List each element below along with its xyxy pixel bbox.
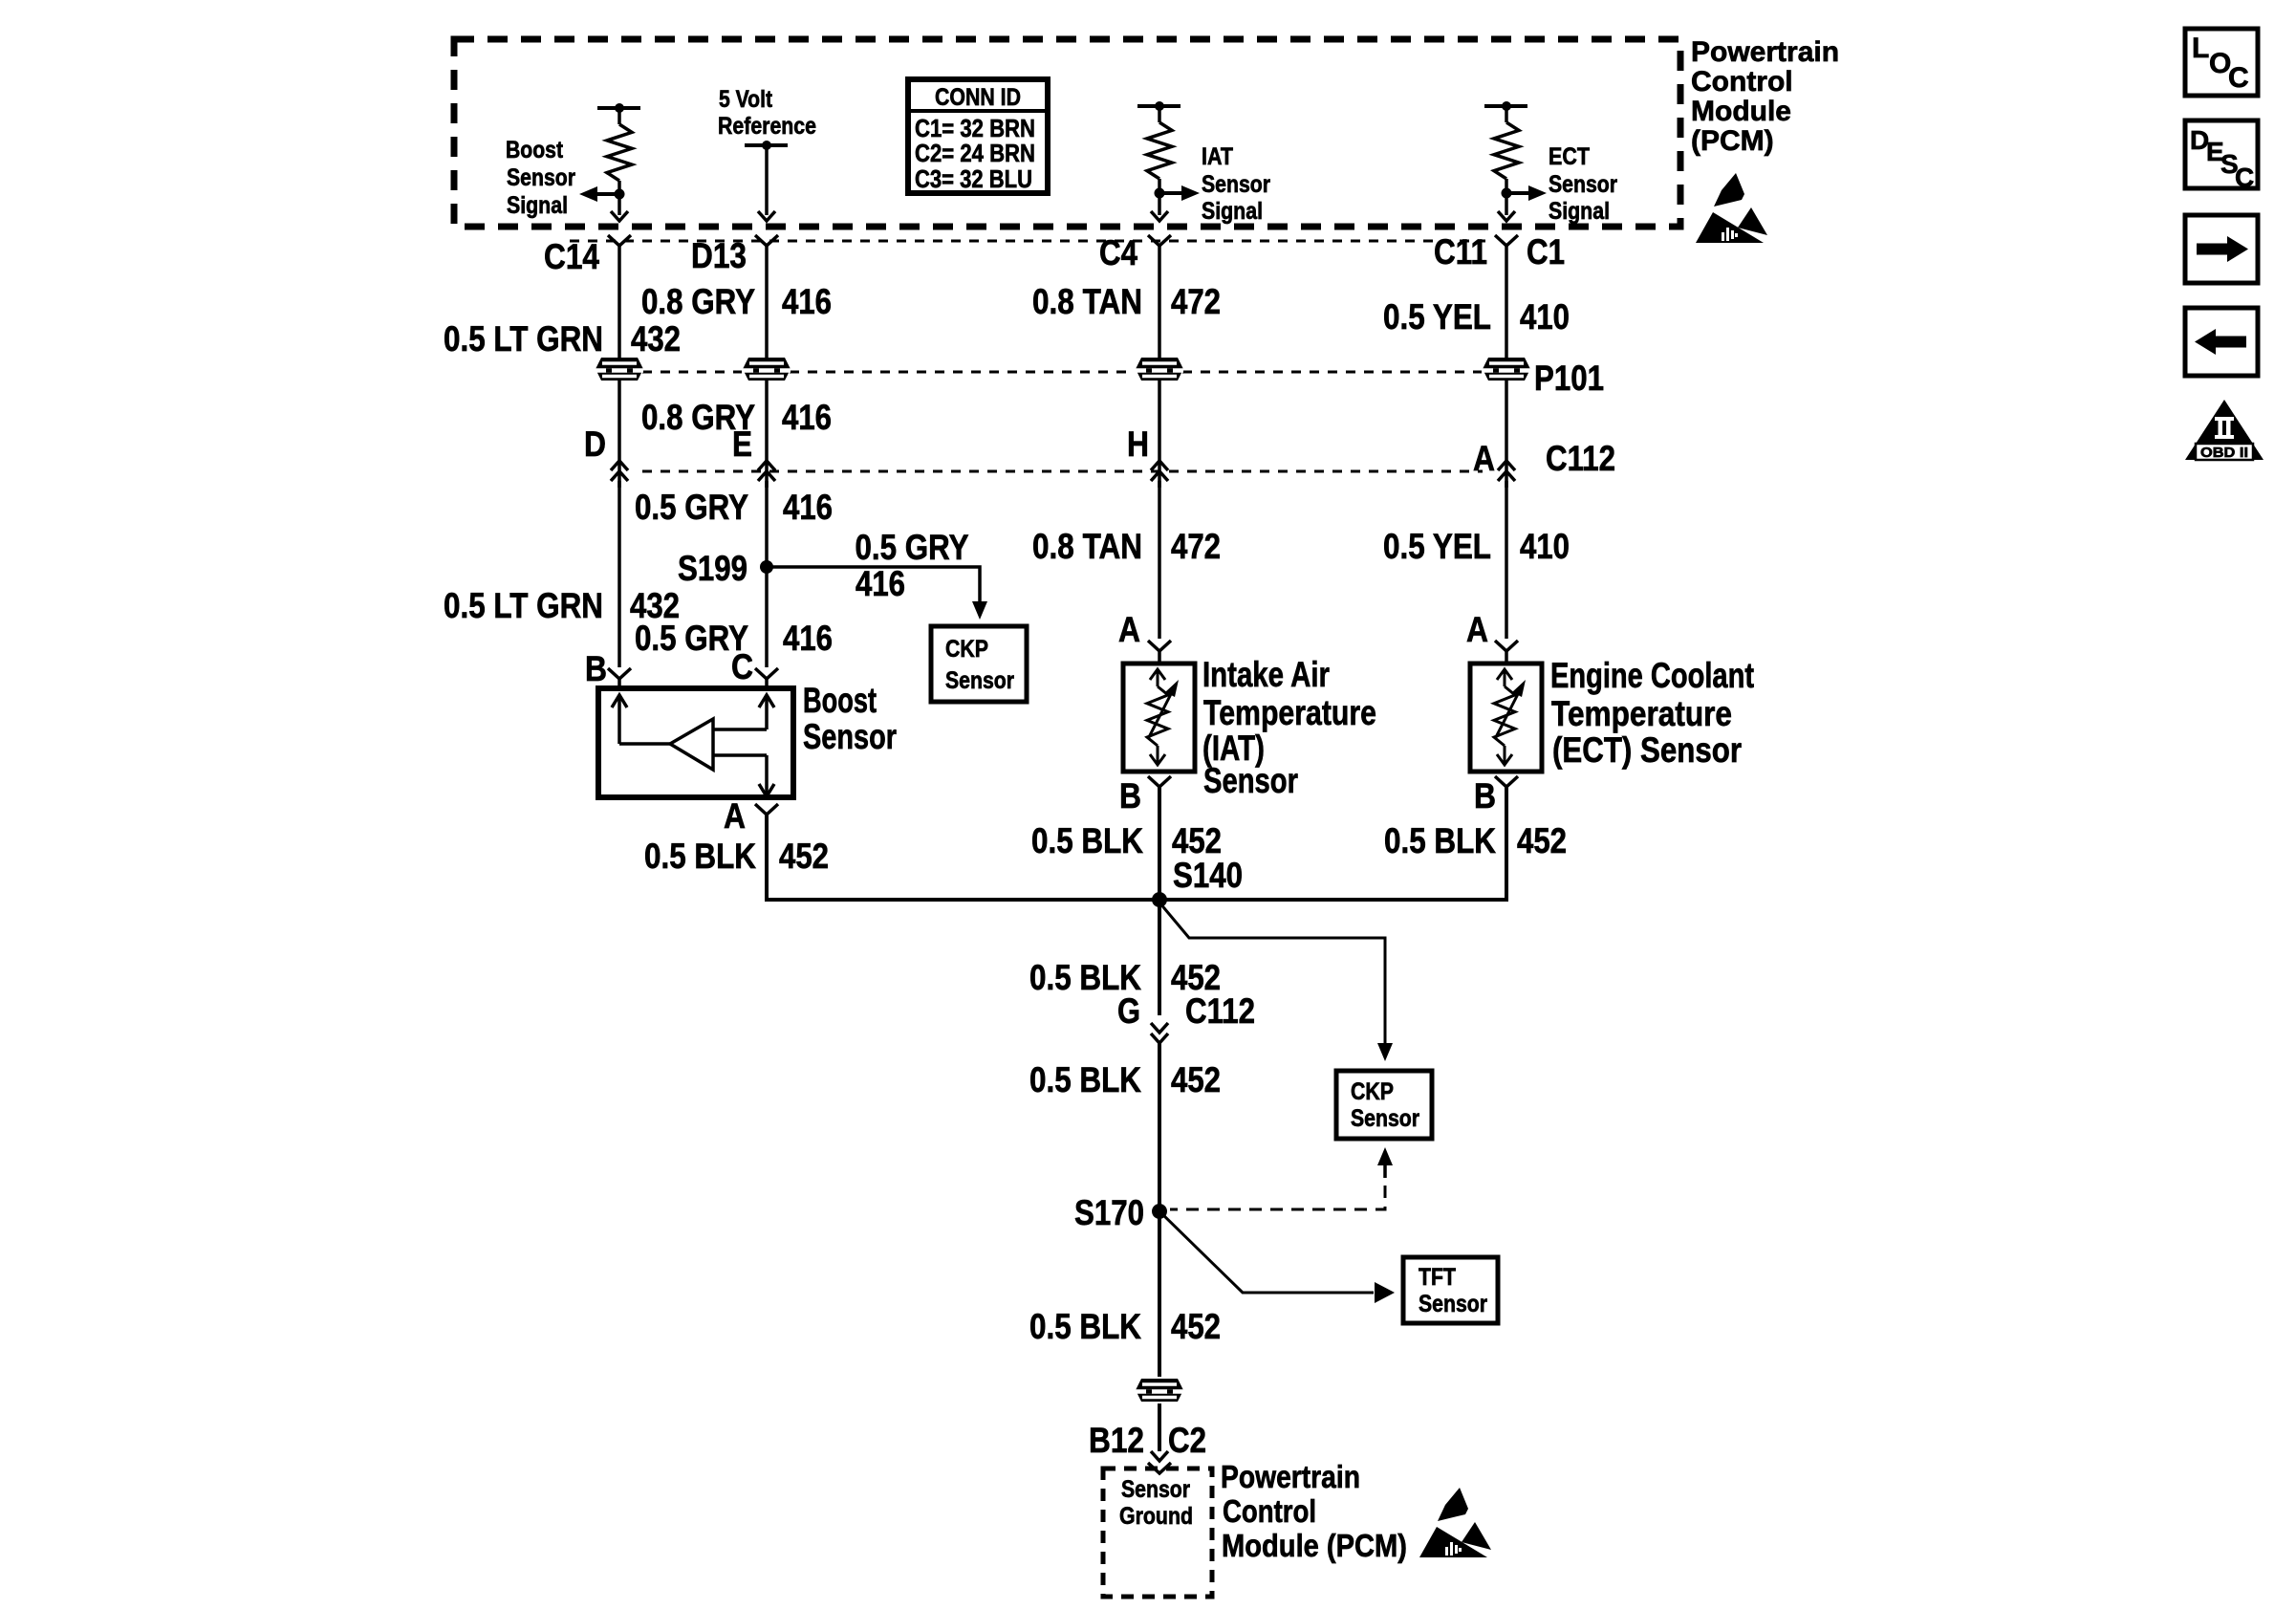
C112 terminal chevrons <box>611 461 628 470</box>
C112 terminal chevrons <box>1151 461 1168 470</box>
svg-text:452: 452 <box>1171 1307 1221 1346</box>
C112 terminal chevrons <box>1498 461 1515 470</box>
wire C11 to P101 <box>1505 246 1508 358</box>
CONN ID table <box>908 79 1048 193</box>
svg-text:(ECT) Sensor: (ECT) Sensor <box>1552 730 1742 770</box>
PCM module box (dashed) <box>454 39 1680 227</box>
svg-text:Sensor: Sensor <box>1549 171 1617 198</box>
grommet P101 wire C11 <box>1483 358 1530 381</box>
connector terminal fork <box>1148 235 1171 246</box>
connector terminal fork <box>755 235 778 246</box>
svg-text:0.5 BLK: 0.5 BLK <box>1031 821 1143 860</box>
svg-text:Powertrain: Powertrain <box>1691 36 1839 68</box>
svg-text:0.5 GRY: 0.5 GRY <box>635 488 748 527</box>
ECT sensor signal arrow (right) <box>1506 191 1529 195</box>
svg-text:C2: C2 <box>1168 1421 1206 1460</box>
svg-text:Boost: Boost <box>803 681 877 720</box>
svg-text:Sensor: Sensor <box>1419 1291 1487 1317</box>
C112 G chevron <box>1151 1033 1168 1043</box>
grommet P101 wire C4 <box>1136 358 1183 381</box>
svg-text:H: H <box>1127 424 1149 464</box>
svg-text:410: 410 <box>1520 297 1570 337</box>
arrowhead to CKP lower <box>1377 1043 1393 1061</box>
svg-text:C11: C11 <box>1434 232 1487 272</box>
svg-text:B: B <box>1119 776 1141 816</box>
boost pin B fork <box>608 668 631 679</box>
C2 fork <box>1148 1463 1171 1473</box>
svg-text:S199: S199 <box>678 549 747 588</box>
arrowhead up to CKP lower <box>1377 1147 1393 1165</box>
svg-text:Signal: Signal <box>1549 198 1610 225</box>
svg-text:E: E <box>732 424 752 464</box>
right arrow icon <box>2185 215 2258 283</box>
svg-text:OBD II: OBD II <box>2200 445 2248 461</box>
grommet P101 wire C14 <box>596 358 643 381</box>
svg-text:L: L <box>2192 33 2209 64</box>
svg-text:5 Volt: 5 Volt <box>719 86 773 113</box>
svg-text:B: B <box>1474 776 1496 816</box>
TFT Sensor box <box>1403 1257 1498 1323</box>
wire to C112 A <box>1505 381 1508 488</box>
svg-text:C2= 24 BRN: C2= 24 BRN <box>915 139 1035 167</box>
svg-text:S170: S170 <box>1074 1193 1144 1232</box>
svg-text:Sensor: Sensor <box>1203 761 1298 800</box>
svg-text:Temperature: Temperature <box>1203 693 1376 732</box>
svg-text:0.5 GRY: 0.5 GRY <box>856 528 969 567</box>
svg-text:Intake Air: Intake Air <box>1202 655 1330 694</box>
wire IAT B to S140 <box>1158 787 1161 900</box>
svg-text:0.5 LT GRN: 0.5 LT GRN <box>444 586 603 625</box>
wire C14 to P101 <box>617 246 621 358</box>
wire C4 to P101 <box>1158 246 1161 358</box>
ECT sensor box <box>1470 664 1542 772</box>
wire boost A to S140 <box>767 815 1159 900</box>
svg-text:416: 416 <box>783 488 833 527</box>
svg-text:Control: Control <box>1223 1493 1316 1529</box>
wire G to S170 <box>1158 1043 1161 1211</box>
svg-text:Sensor: Sensor <box>1351 1105 1419 1132</box>
svg-text:0.8 TAN: 0.8 TAN <box>1032 282 1142 321</box>
svg-text:C112: C112 <box>1185 991 1255 1031</box>
arrowhead to CKP <box>972 601 987 620</box>
svg-text:Ground: Ground <box>1119 1503 1193 1530</box>
node S140 <box>1152 892 1167 907</box>
node S199 <box>760 560 773 574</box>
wire to grommet C2 <box>1158 1043 1161 1377</box>
svg-text:0.5 BLK: 0.5 BLK <box>644 837 756 876</box>
svg-text:A: A <box>724 796 746 836</box>
svg-text:C: C <box>731 647 753 686</box>
svg-text:Reference: Reference <box>718 113 816 140</box>
svg-text:416: 416 <box>782 398 832 437</box>
wire S199 to CKP sensor <box>767 567 980 602</box>
IAT sensor signal arrow (right) <box>1159 191 1182 195</box>
svg-text:Control: Control <box>1691 66 1793 98</box>
wire D13 to P101 <box>765 246 769 358</box>
OBD II icon <box>2185 400 2264 461</box>
C112 connector dashed line <box>642 470 1483 473</box>
IAT pin A fork <box>1148 641 1171 651</box>
wire to C112 H <box>1158 381 1161 488</box>
svg-text:(PCM): (PCM) <box>1691 125 1774 157</box>
svg-text:C112: C112 <box>1546 439 1615 478</box>
svg-text:A: A <box>1466 610 1488 649</box>
IAT thermistor <box>1150 669 1165 680</box>
wire S140 down <box>1158 900 1161 1015</box>
svg-text:S140: S140 <box>1173 856 1243 895</box>
svg-text:0.5 YEL: 0.5 YEL <box>1383 527 1491 566</box>
svg-text:C: C <box>2235 163 2254 192</box>
svg-text:CKP: CKP <box>945 636 988 663</box>
resistor IAT sensor signal (PCM internal) <box>1137 104 1180 108</box>
CKP Sensor box (lower) <box>1336 1071 1432 1139</box>
svg-text:416: 416 <box>783 619 833 658</box>
svg-text:D: D <box>584 424 606 464</box>
ESD symbol bottom <box>1419 1488 1491 1557</box>
svg-text:452: 452 <box>1171 1060 1221 1099</box>
svg-text:452: 452 <box>1172 821 1222 860</box>
resistor ECT sensor signal (PCM internal) <box>1484 104 1527 108</box>
svg-text:Signal: Signal <box>507 192 568 219</box>
svg-text:G: G <box>1117 991 1140 1031</box>
boost pin A fork <box>755 804 778 815</box>
svg-text:CONN ID: CONN ID <box>935 84 1021 111</box>
resistor boost sensor (PCM internal) <box>597 106 640 110</box>
node S170 <box>1152 1204 1167 1219</box>
svg-text:C14: C14 <box>544 237 599 276</box>
svg-text:410: 410 <box>1520 527 1570 566</box>
wire to C112 E <box>765 381 769 488</box>
svg-text:Module: Module <box>1691 96 1791 127</box>
svg-text:Engine Coolant: Engine Coolant <box>1550 656 1754 695</box>
branch S140 to CKP (lower) <box>1159 903 1385 1044</box>
svg-text:D13: D13 <box>691 236 747 275</box>
Boost Sensor box <box>598 688 793 797</box>
IAT pin B fork <box>1148 776 1171 787</box>
P101 connector dashed line <box>642 371 742 374</box>
ECT pin A fork <box>1495 641 1518 651</box>
svg-text:P101: P101 <box>1534 359 1604 398</box>
svg-text:452: 452 <box>779 837 829 876</box>
LOC icon <box>2185 29 2258 96</box>
svg-text:Module (PCM): Module (PCM) <box>1222 1528 1407 1563</box>
wire D to Boost B <box>617 481 621 667</box>
boost pin C fork <box>755 668 778 679</box>
boost sensor signal arrow (left) <box>596 192 619 196</box>
svg-text:0.5 YEL: 0.5 YEL <box>1383 297 1491 337</box>
CKP Sensor box (upper) <box>931 626 1027 702</box>
svg-text:416: 416 <box>782 282 832 321</box>
ECT thermistor <box>1497 669 1512 680</box>
svg-text:Powertrain: Powertrain <box>1221 1459 1360 1494</box>
IAT sensor box <box>1123 664 1195 772</box>
svg-text:0.8 TAN: 0.8 TAN <box>1032 527 1142 566</box>
C112 G arrowhead <box>1151 1023 1168 1033</box>
svg-text:B12: B12 <box>1089 1421 1144 1460</box>
svg-text:0.5 BLK: 0.5 BLK <box>1384 821 1496 860</box>
connector terminal fork <box>608 235 631 246</box>
boost sensor internals <box>612 695 627 707</box>
svg-text:Sensor: Sensor <box>1121 1476 1190 1503</box>
svg-text:Sensor: Sensor <box>507 164 575 191</box>
svg-text:ECT: ECT <box>1549 143 1590 170</box>
ECT pin B fork <box>1495 776 1518 787</box>
svg-text:Boost: Boost <box>506 137 564 163</box>
C2 arrowhead <box>1151 1451 1168 1461</box>
svg-text:Sensor: Sensor <box>803 717 897 756</box>
grommet C2 <box>1136 1379 1183 1402</box>
wire H to IAT A <box>1158 481 1161 639</box>
svg-text:0.5 BLK: 0.5 BLK <box>1029 1307 1141 1346</box>
svg-text:TFT: TFT <box>1419 1264 1456 1291</box>
svg-text:0.5 BLK: 0.5 BLK <box>1029 1060 1141 1099</box>
wire grommet to PCM ground <box>1158 1403 1161 1451</box>
DESC icon <box>2185 120 2258 188</box>
svg-text:452: 452 <box>1517 821 1567 860</box>
arrowhead to TFT <box>1375 1282 1395 1303</box>
Sensor Ground box (dashed) <box>1103 1469 1212 1597</box>
svg-text:A: A <box>1118 610 1140 649</box>
svg-text:432: 432 <box>631 319 681 359</box>
left arrow icon <box>2185 308 2258 376</box>
svg-text:Sensor: Sensor <box>1202 171 1270 198</box>
svg-text:C3= 32 BLU: C3= 32 BLU <box>915 164 1032 193</box>
wire to C112 D <box>617 381 621 488</box>
svg-text:C1: C1 <box>1527 232 1565 272</box>
wire ECT B to S140 <box>1159 787 1506 900</box>
ESD symbol top <box>1696 173 1767 243</box>
svg-text:Temperature: Temperature <box>1551 694 1732 733</box>
svg-text:IAT: IAT <box>1202 143 1233 170</box>
svg-text:472: 472 <box>1171 282 1221 321</box>
wire E to S199/C <box>765 481 769 667</box>
svg-text:416: 416 <box>856 564 905 603</box>
svg-text:Sensor: Sensor <box>945 667 1014 694</box>
svg-text:0.8 GRY: 0.8 GRY <box>641 282 755 321</box>
svg-text:C: C <box>2228 62 2249 94</box>
grommet P101 wire D13 <box>743 358 791 381</box>
svg-text:A: A <box>1473 439 1495 478</box>
svg-text:B: B <box>585 649 607 688</box>
svg-text:472: 472 <box>1171 527 1221 566</box>
svg-text:C4: C4 <box>1099 233 1137 272</box>
connector terminal fork <box>1495 235 1518 246</box>
C112 terminal chevrons <box>758 461 775 470</box>
PCM connector line C1/C2 (dashed) <box>570 240 1485 243</box>
svg-text:CKP: CKP <box>1351 1078 1394 1105</box>
svg-text:Signal: Signal <box>1202 198 1263 225</box>
wire A to ECT A <box>1505 481 1508 639</box>
branch S170 to TFT sensor <box>1159 1211 1374 1293</box>
svg-text:0.5 LT GRN: 0.5 LT GRN <box>444 319 603 359</box>
5 volt reference wire (PCM internal) <box>745 143 788 147</box>
